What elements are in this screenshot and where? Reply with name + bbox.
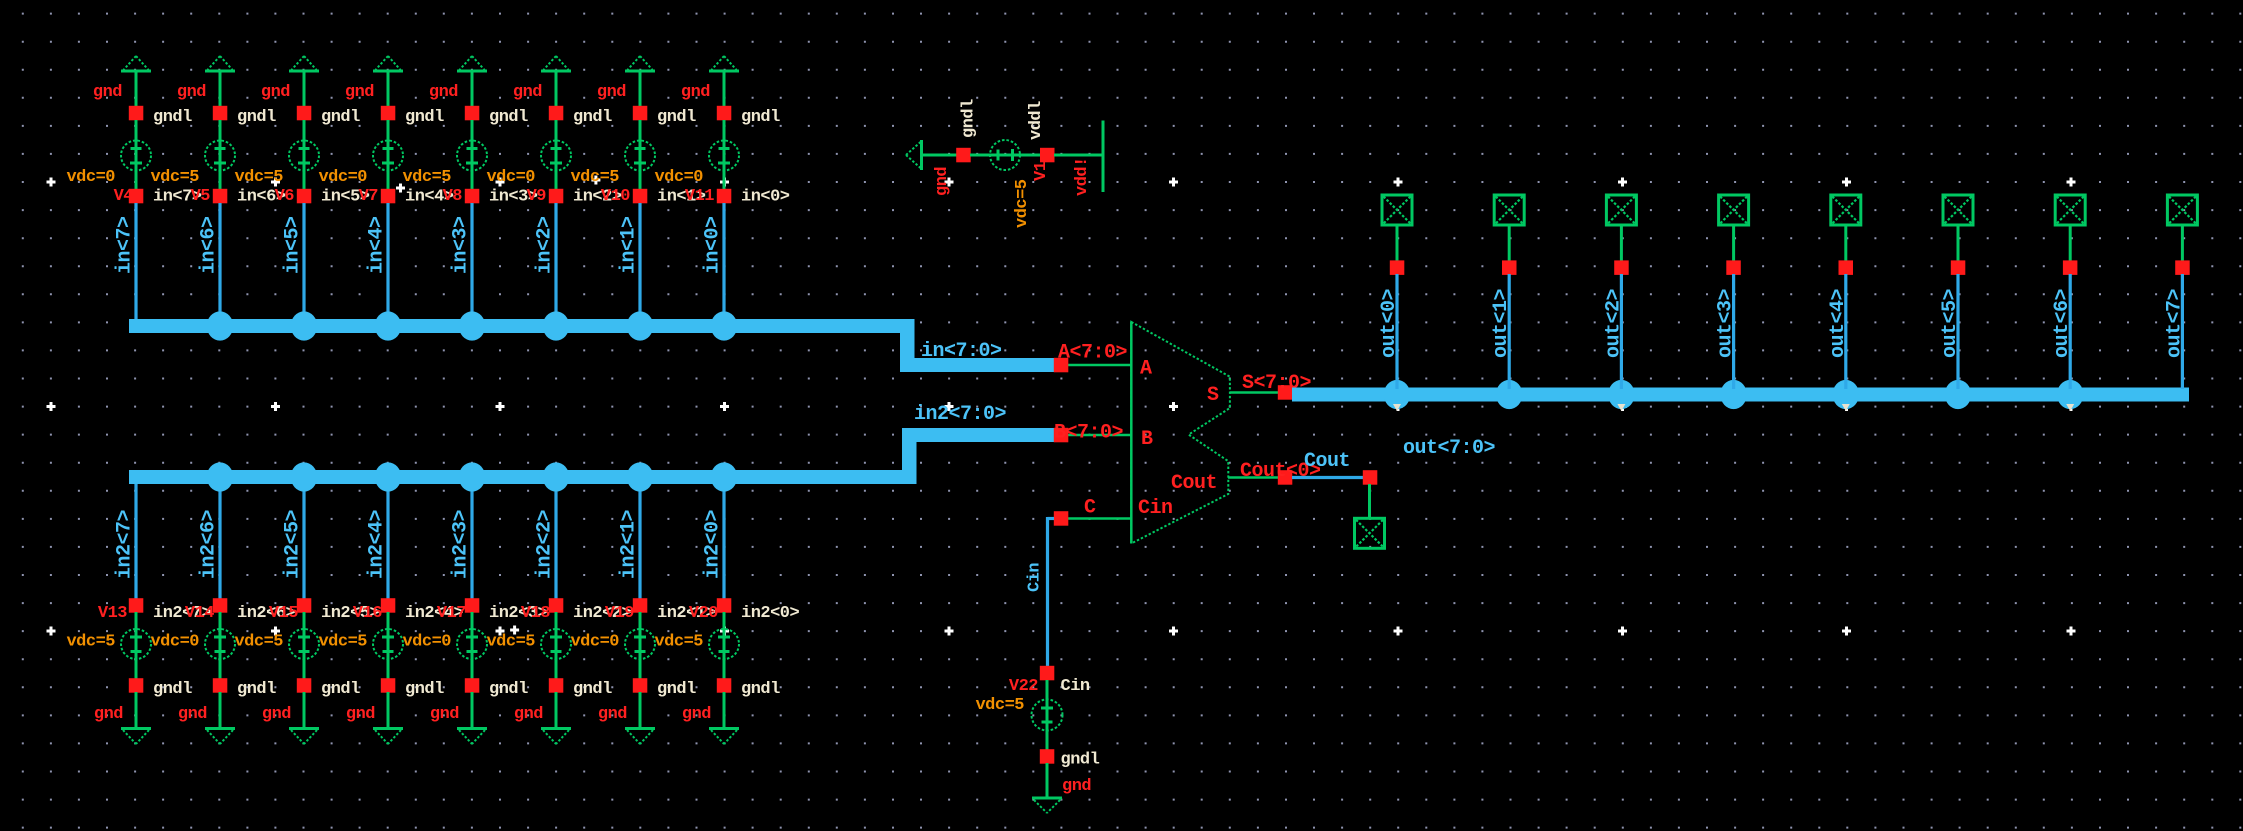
pin gndl (V20 minus) xyxy=(717,678,780,699)
wire in2&lt;5&gt; xyxy=(282,484,305,599)
wire in2&lt;6&gt; xyxy=(198,484,221,599)
label Cout (net) xyxy=(1304,450,1350,473)
svg-text:gndl: gndl xyxy=(489,680,528,699)
pin gndl (V19 minus) xyxy=(633,678,696,699)
pin gndl (V11 minus) xyxy=(717,106,780,127)
svg-text:gnd: gnd xyxy=(93,83,122,102)
label gnd (top col 4) xyxy=(429,83,458,102)
svg-text:in<3>: in<3> xyxy=(450,216,473,274)
adder pin label Cout xyxy=(1171,472,1217,495)
wire V1 to vdd rail xyxy=(1054,154,1102,157)
pin S&lt;7:0&gt; xyxy=(1230,372,1312,400)
output pin out&lt;6&gt; xyxy=(2055,195,2085,225)
svg-text:vdc=5: vdc=5 xyxy=(654,633,703,652)
node out&lt;6&gt; xyxy=(2063,260,2078,275)
wire V13 to gnd xyxy=(135,692,138,727)
label vdd! xyxy=(1073,157,1092,196)
svg-text:gndl: gndl xyxy=(237,680,276,699)
pin gndl (V7 minus) xyxy=(381,106,444,127)
svg-text:gnd: gnd xyxy=(682,705,711,724)
svg-text:gnd: gnd xyxy=(261,83,290,102)
svg-text:V13: V13 xyxy=(98,604,127,623)
node in2&lt;1&gt; (bottom col 6) xyxy=(633,598,716,623)
wire pin out&lt;0&gt; xyxy=(1396,225,1399,261)
node in2&lt;0&gt; (bottom col 7) xyxy=(717,598,800,623)
node in&lt;1&gt; (top col 6) xyxy=(633,188,706,207)
label V8 xyxy=(443,187,463,206)
svg-text:V5: V5 xyxy=(191,187,211,206)
svg-text:gndl: gndl xyxy=(405,680,444,699)
label gnd (top col 1) xyxy=(177,83,206,102)
svg-text:Cin: Cin xyxy=(1026,563,1045,592)
pin gndl (V6 minus) xyxy=(297,106,360,127)
svg-text:V19: V19 xyxy=(605,604,634,623)
voltage source V13 (vdc=5) xyxy=(66,612,151,679)
label gnd (bottom col 5) xyxy=(514,705,543,724)
voltage source V4 (vdc=0) xyxy=(66,120,151,189)
svg-text:gnd: gnd xyxy=(598,705,627,724)
output pin Cout xyxy=(1355,518,1385,548)
svg-text:vdc=5: vdc=5 xyxy=(1013,179,1032,228)
node in&lt;4&gt; (top col 3) xyxy=(381,188,454,207)
ground symbol gnd (bottom col 5) xyxy=(541,729,571,745)
svg-text:V22: V22 xyxy=(1009,677,1038,696)
svg-text:in2<5>: in2<5> xyxy=(282,509,305,579)
svg-text:vdc=5: vdc=5 xyxy=(66,633,115,652)
label V15 xyxy=(269,604,298,623)
svg-text:gndl: gndl xyxy=(573,680,612,699)
pin gndl (V8 minus) xyxy=(465,106,528,127)
node Cout (output) xyxy=(1363,470,1378,485)
label V13 xyxy=(98,604,127,623)
bus out&lt;7:0&gt; (S) xyxy=(1292,388,2189,461)
ground symbol gnd (top col 4) xyxy=(457,56,487,71)
wire pin out&lt;6&gt; xyxy=(2069,225,2072,261)
svg-text:gndl: gndl xyxy=(573,108,612,127)
node in2&lt;6&gt; (bottom col 1) xyxy=(213,598,296,623)
svg-text:in<5>: in<5> xyxy=(282,216,305,274)
svg-text:gnd: gnd xyxy=(514,705,543,724)
node in&lt;5&gt; (top col 2) xyxy=(297,188,370,207)
svg-text:V6: V6 xyxy=(275,187,295,206)
svg-text:gnd: gnd xyxy=(94,705,123,724)
label gnd (top col 0) xyxy=(93,83,122,102)
ground symbol gnd (bottom col 0) xyxy=(121,729,151,745)
wire in2&lt;2&gt; xyxy=(534,484,557,599)
ground symbol gnd (V22) xyxy=(1032,798,1062,813)
pin A&lt;7:0&gt; xyxy=(1054,342,1131,373)
ground symbol gnd (top col 1) xyxy=(205,56,235,71)
svg-text:V16: V16 xyxy=(353,604,382,623)
node in2&lt;5&gt; (bottom col 2) xyxy=(297,598,380,623)
pin gndl (V18 minus) xyxy=(549,678,612,699)
label gnd (top col 2) xyxy=(261,83,290,102)
label gnd (V22) xyxy=(1062,777,1091,796)
node out&lt;3&gt; xyxy=(1726,260,1741,275)
label V6 xyxy=(275,187,295,206)
svg-text:V18: V18 xyxy=(521,604,550,623)
wire in&lt;3&gt; xyxy=(450,203,473,320)
label V18 xyxy=(521,604,550,623)
svg-text:gndl: gndl xyxy=(960,99,979,138)
svg-text:vdc=0: vdc=0 xyxy=(66,168,115,187)
pin Cout xyxy=(1228,460,1321,485)
wire in2&lt;1&gt; xyxy=(618,484,641,599)
svg-text:out<6>: out<6> xyxy=(2051,288,2074,358)
node in2&lt;2&gt; (bottom col 5) xyxy=(549,598,632,623)
node out&lt;4&gt; xyxy=(1839,260,1854,275)
wire V18 to gnd xyxy=(555,692,558,727)
svg-text:in<0>: in<0> xyxy=(741,188,790,207)
svg-text:out<3>: out<3> xyxy=(1715,288,1738,358)
svg-text:gnd: gnd xyxy=(1062,777,1091,796)
svg-text:in<6>: in<6> xyxy=(198,216,221,274)
svg-text:in2<1>: in2<1> xyxy=(618,509,641,579)
output pin out&lt;0&gt; xyxy=(1382,195,1412,225)
svg-text:gndl: gndl xyxy=(237,108,276,127)
pin gndl (V17 minus) xyxy=(465,678,528,699)
svg-text:gnd: gnd xyxy=(262,705,291,724)
svg-text:out<2>: out<2> xyxy=(1602,288,1625,358)
ground symbol gnd (bottom col 7) xyxy=(709,729,739,745)
svg-text:gnd: gnd xyxy=(597,83,626,102)
pin gndl (V13 minus) xyxy=(129,678,192,699)
pin gndl (V10 minus) xyxy=(633,106,696,127)
ground symbol gnd (bottom col 4) xyxy=(457,729,487,745)
svg-text:in<7>: in<7> xyxy=(114,216,137,274)
pin gndl (V22 minus) xyxy=(1040,749,1100,769)
wire out&lt;7&gt; xyxy=(2163,274,2186,389)
label V5 xyxy=(191,187,211,206)
label V10 xyxy=(601,187,630,206)
svg-text:gndl: gndl xyxy=(153,108,192,127)
svg-text:vdc=0: vdc=0 xyxy=(402,633,451,652)
voltage source V9 (vdc=0) xyxy=(486,120,571,189)
voltage source V18 (vdc=5) xyxy=(486,612,571,679)
svg-text:in2<6>: in2<6> xyxy=(198,509,221,579)
svg-text:out<7>: out<7> xyxy=(2163,288,2186,358)
wire Cout pin stub xyxy=(1368,484,1371,518)
svg-text:out<4>: out<4> xyxy=(1827,288,1850,358)
svg-text:gnd: gnd xyxy=(345,83,374,102)
ground symbol gnd (top col 5) xyxy=(541,56,571,71)
label V17 xyxy=(437,604,466,623)
svg-text:Cin: Cin xyxy=(1061,677,1090,696)
svg-text:gndl: gndl xyxy=(741,680,780,699)
wire gnd to V9 xyxy=(555,72,558,107)
ground symbol gnd (bottom col 1) xyxy=(205,729,235,745)
label gnd (vdd supply) xyxy=(933,167,952,196)
node out&lt;5&gt; xyxy=(1951,260,1966,275)
wire pin out&lt;7&gt; xyxy=(2181,225,2184,261)
svg-text:V7: V7 xyxy=(359,187,379,206)
wire in&lt;6&gt; xyxy=(198,203,221,320)
svg-text:in2<7:0>: in2<7:0> xyxy=(914,403,1007,426)
voltage source V14 (vdc=0) xyxy=(150,612,235,679)
node Cin (V22 top) xyxy=(1009,666,1090,696)
svg-text:A: A xyxy=(1140,358,1152,381)
node out&lt;1&gt; xyxy=(1502,260,1517,275)
wire in&lt;0&gt; xyxy=(702,203,725,320)
wire gnd to V7 xyxy=(387,72,390,107)
ground symbol gnd (top col 3) xyxy=(373,56,403,71)
svg-text:vdd!: vdd! xyxy=(1073,157,1092,196)
output pin out&lt;4&gt; xyxy=(1831,195,1861,225)
label V16 xyxy=(353,604,382,623)
svg-text:gndl: gndl xyxy=(153,680,192,699)
wire V15 to gnd xyxy=(303,692,306,727)
wire gnd to V10 xyxy=(639,72,642,107)
wire Cout xyxy=(1292,476,1365,479)
adder pin label S xyxy=(1207,384,1219,407)
svg-text:vddl: vddl xyxy=(1027,101,1046,140)
svg-text:out<1>: out<1> xyxy=(1490,288,1513,358)
label gnd (bottom col 6) xyxy=(598,705,627,724)
wire in2&lt;0&gt; xyxy=(702,484,725,599)
voltage source V10 (vdc=5) xyxy=(570,120,655,189)
ground symbol gnd (top col 2) xyxy=(289,56,319,71)
wire in2&lt;7&gt; xyxy=(114,484,137,599)
svg-text:vdc=0: vdc=0 xyxy=(150,633,199,652)
ground symbol gnd (bottom col 6) xyxy=(625,729,655,745)
svg-text:vdc=0: vdc=0 xyxy=(570,633,619,652)
svg-text:V1: V1 xyxy=(1032,161,1051,181)
wire pin out&lt;2&gt; xyxy=(1620,225,1623,261)
wire gnd to V11 xyxy=(723,72,726,107)
bus in2&lt;7:0&gt; xyxy=(129,403,1061,484)
label V20 xyxy=(689,604,718,623)
output pin out&lt;1&gt; xyxy=(1494,195,1524,225)
pin vddl (V1 plus) xyxy=(1027,101,1055,162)
wire in&lt;2&gt; xyxy=(534,203,557,320)
svg-text:Cin: Cin xyxy=(1138,497,1173,520)
svg-text:gndl: gndl xyxy=(741,108,780,127)
voltage source V16 (vdc=5) xyxy=(318,612,403,679)
pin gndl (V5 minus) xyxy=(213,106,276,127)
label gnd (bottom col 4) xyxy=(430,705,459,724)
wire V22 to gnd xyxy=(1046,763,1049,797)
label V9 xyxy=(527,187,547,206)
svg-text:V10: V10 xyxy=(601,187,630,206)
svg-text:vdc=0: vdc=0 xyxy=(654,168,703,187)
svg-text:vdc=5: vdc=5 xyxy=(975,696,1024,715)
label V1 xyxy=(1032,161,1051,181)
svg-text:gnd: gnd xyxy=(178,705,207,724)
wire pin out&lt;1&gt; xyxy=(1508,225,1511,261)
junction dots bus out&lt;7:0&gt; xyxy=(1384,380,2084,409)
wire in&lt;1&gt; xyxy=(618,203,641,320)
label V7 xyxy=(359,187,379,206)
svg-text:out<7:0>: out<7:0> xyxy=(1403,437,1496,460)
wire out&lt;0&gt; xyxy=(1378,274,1401,389)
svg-text:in<7:0>: in<7:0> xyxy=(921,340,1002,363)
svg-text:gnd: gnd xyxy=(933,167,952,196)
pin B&lt;7:0&gt; xyxy=(1054,422,1131,445)
adder pin label B xyxy=(1141,428,1153,451)
ground symbol gnd (top col 6) xyxy=(625,56,655,71)
adder pin label A xyxy=(1140,358,1152,381)
pin gndl (V9 minus) xyxy=(549,106,612,127)
svg-text:vdc=5: vdc=5 xyxy=(486,633,535,652)
ground symbol gnd (bottom col 3) xyxy=(373,729,403,745)
svg-text:gndl: gndl xyxy=(321,680,360,699)
svg-text:C: C xyxy=(1084,497,1096,520)
pin gndl (V1 minus) xyxy=(956,99,978,162)
pin gndl (V16 minus) xyxy=(381,678,444,699)
voltage source V6 (vdc=5) xyxy=(234,120,319,189)
voltage source V5 (vdc=5) xyxy=(150,120,235,189)
svg-text:vdc=5: vdc=5 xyxy=(150,168,199,187)
svg-text:Cout: Cout xyxy=(1171,472,1217,495)
svg-text:V9: V9 xyxy=(527,187,547,206)
wire end markers (white) xyxy=(1393,404,2074,411)
label gnd (top col 7) xyxy=(681,83,710,102)
label gnd (bottom col 2) xyxy=(262,705,291,724)
wire out&lt;4&gt; xyxy=(1827,274,1850,389)
wire in&lt;4&gt; xyxy=(366,203,389,320)
voltage source V15 (vdc=5) xyxy=(234,612,319,679)
svg-text:vdc=5: vdc=5 xyxy=(234,168,283,187)
wire out&lt;1&gt; xyxy=(1490,274,1513,389)
pin gndl (V4 minus) xyxy=(129,106,192,127)
wire gnd to V5 xyxy=(219,72,222,107)
node out&lt;2&gt; xyxy=(1614,260,1629,275)
svg-text:out<0>: out<0> xyxy=(1378,288,1401,358)
wire gnd to V8 xyxy=(471,72,474,107)
node out&lt;0&gt; xyxy=(1390,260,1405,275)
node in&lt;7&gt; (top col 0) xyxy=(129,188,202,207)
svg-text:gnd: gnd xyxy=(681,83,710,102)
wire pin out&lt;4&gt; xyxy=(1844,225,1847,261)
voltage source V8 (vdc=5) xyxy=(402,120,487,189)
node in&lt;0&gt; (top col 7) xyxy=(717,188,790,207)
svg-text:Cout: Cout xyxy=(1304,450,1350,473)
svg-text:in2<0>: in2<0> xyxy=(702,509,725,579)
label V4 xyxy=(114,187,134,206)
svg-text:gndl: gndl xyxy=(657,108,696,127)
ground symbol gnd (top col 0) xyxy=(121,56,151,71)
wire V17 to gnd xyxy=(471,692,474,727)
svg-text:in<4>: in<4> xyxy=(366,216,389,274)
svg-text:vdc=5: vdc=5 xyxy=(234,633,283,652)
svg-text:out<5>: out<5> xyxy=(1939,288,1962,358)
svg-text:gndl: gndl xyxy=(405,108,444,127)
bus in&lt;7:0&gt; xyxy=(129,319,1061,372)
wire gnd to V1 xyxy=(922,154,958,157)
ground symbol gnd (bottom col 2) xyxy=(289,729,319,745)
svg-text:in2<4>: in2<4> xyxy=(366,509,389,579)
svg-text:gndl: gndl xyxy=(321,108,360,127)
label gnd (bottom col 1) xyxy=(178,705,207,724)
wire out&lt;2&gt; xyxy=(1602,274,1625,389)
svg-text:gndl: gndl xyxy=(1061,751,1100,770)
svg-text:V20: V20 xyxy=(689,604,718,623)
svg-text:V8: V8 xyxy=(443,187,463,206)
svg-text:gnd: gnd xyxy=(177,83,206,102)
wire in&lt;5&gt; xyxy=(282,203,305,320)
node in&lt;3&gt; (top col 4) xyxy=(465,188,538,207)
wire out&lt;3&gt; xyxy=(1715,274,1738,389)
label V14 xyxy=(185,604,214,623)
node in&lt;6&gt; (top col 1) xyxy=(213,188,286,207)
voltage source V20 (vdc=5) xyxy=(654,612,739,679)
output pin out&lt;7&gt; xyxy=(2167,195,2197,225)
svg-text:gnd: gnd xyxy=(346,705,375,724)
output pin out&lt;3&gt; xyxy=(1719,195,1749,225)
svg-text:in<0>: in<0> xyxy=(702,216,725,274)
pin gndl (V14 minus) xyxy=(213,678,276,699)
junction dots bus in&lt;7:0&gt; xyxy=(207,311,737,340)
label gnd (top col 3) xyxy=(345,83,374,102)
node in2&lt;3&gt; (bottom col 4) xyxy=(465,598,548,623)
power rail vdd! xyxy=(1102,121,1105,193)
label V19 xyxy=(605,604,634,623)
node in2&lt;4&gt; (bottom col 3) xyxy=(381,598,464,623)
svg-text:in<2>: in<2> xyxy=(534,216,557,274)
svg-text:in<1>: in<1> xyxy=(618,216,641,274)
label gnd (top col 5) xyxy=(513,83,542,102)
label gnd (top col 6) xyxy=(597,83,626,102)
svg-text:gnd: gnd xyxy=(513,83,542,102)
output pin out&lt;5&gt; xyxy=(1943,195,1973,225)
wire pin out&lt;3&gt; xyxy=(1732,225,1735,261)
svg-text:gnd: gnd xyxy=(429,83,458,102)
svg-text:A<7:0>: A<7:0> xyxy=(1058,342,1128,365)
output pin out&lt;2&gt; xyxy=(1606,195,1636,225)
svg-text:gndl: gndl xyxy=(489,108,528,127)
pin gndl (V15 minus) xyxy=(297,678,360,699)
svg-text:vdc=5: vdc=5 xyxy=(402,168,451,187)
wire V20 to gnd xyxy=(723,692,726,727)
wire in2&lt;4&gt; xyxy=(366,484,389,599)
svg-text:in2<0>: in2<0> xyxy=(741,604,800,623)
voltage source V1 (vdc=5) xyxy=(970,140,1041,228)
svg-text:gndl: gndl xyxy=(657,680,696,699)
wire pin out&lt;5&gt; xyxy=(1957,225,1960,261)
voltage source V19 (vdc=0) xyxy=(570,612,655,679)
svg-text:B: B xyxy=(1141,428,1153,451)
wire out&lt;6&gt; xyxy=(2051,274,2074,389)
wire gnd to V6 xyxy=(303,72,306,107)
wire gnd to V4 xyxy=(135,72,138,107)
wire Cin (C pin to V22) xyxy=(1026,517,1055,667)
svg-text:in2<7>: in2<7> xyxy=(114,509,137,579)
node in2&lt;7&gt; (bottom col 0) xyxy=(129,598,212,623)
node in&lt;2&gt; (top col 5) xyxy=(549,188,622,207)
svg-text:V15: V15 xyxy=(269,604,298,623)
label gnd (bottom col 7) xyxy=(682,705,711,724)
label V11 xyxy=(685,187,714,206)
label gnd (bottom col 0) xyxy=(94,705,123,724)
svg-text:gnd: gnd xyxy=(430,705,459,724)
junction dots bus in2&lt;7:0&gt; xyxy=(207,462,737,491)
ground symbol gnd (vdd supply) xyxy=(906,140,922,170)
label gnd (bottom col 3) xyxy=(346,705,375,724)
svg-text:V14: V14 xyxy=(185,604,214,623)
voltage source V11 (vdc=0) xyxy=(654,120,739,189)
voltage source V17 (vdc=0) xyxy=(402,612,487,679)
wire V19 to gnd xyxy=(639,692,642,727)
svg-text:vdc=0: vdc=0 xyxy=(318,168,367,187)
svg-text:V17: V17 xyxy=(437,604,466,623)
svg-text:vdc=5: vdc=5 xyxy=(570,168,619,187)
wire V14 to gnd xyxy=(219,692,222,727)
adder pin label Cin xyxy=(1138,497,1173,520)
svg-text:in2<3>: in2<3> xyxy=(450,509,473,579)
voltage source V7 (vdc=0) xyxy=(318,120,403,189)
svg-text:B<7:0>: B<7:0> xyxy=(1054,422,1124,445)
svg-text:in2<2>: in2<2> xyxy=(534,509,557,579)
